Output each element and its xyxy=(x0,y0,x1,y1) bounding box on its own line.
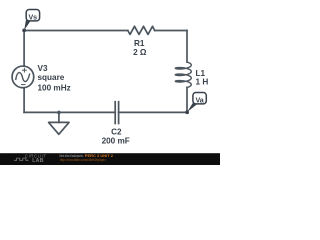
svg-text:200 mF: 200 mF xyxy=(102,136,130,145)
svg-text:Vs: Vs xyxy=(28,13,37,21)
wire resistor to top-right corner xyxy=(155,30,187,32)
wire top-left to resistor xyxy=(24,30,128,32)
ground stub xyxy=(58,112,60,122)
svg-text:LAB: LAB xyxy=(32,158,44,164)
wire left vertical lower xyxy=(23,88,25,113)
ground triangle xyxy=(49,122,69,134)
capacitor C2 left plate xyxy=(114,102,116,124)
watermark bar xyxy=(0,153,220,165)
wire bottom right segment xyxy=(119,111,187,113)
node label Vs xyxy=(22,10,39,33)
V3 minus sign xyxy=(21,84,26,86)
svg-text:V3: V3 xyxy=(38,64,48,73)
V3 plus sign xyxy=(21,68,27,85)
svg-text:http://circuitlab.com/c/8rfk2t: http://circuitlab.com/c/8rfk2tq5pdx xyxy=(60,158,106,162)
ground junction dot xyxy=(57,111,61,115)
logo waveform xyxy=(14,158,29,160)
svg-text:100 mHz: 100 mHz xyxy=(38,84,71,93)
voltage source V3 circle xyxy=(12,66,34,88)
svg-text:square: square xyxy=(38,73,65,82)
svg-text:2 Ω: 2 Ω xyxy=(133,48,147,57)
inductor L1 coil xyxy=(175,62,191,87)
wire left vertical upper xyxy=(23,31,25,67)
wire right vertical lower xyxy=(186,88,188,113)
V3 sine wave xyxy=(16,73,30,82)
wire bottom left segment xyxy=(24,111,115,113)
svg-text:1 H: 1 H xyxy=(196,77,209,86)
resistor R1 xyxy=(128,26,155,34)
capacitor C2 right plate xyxy=(118,102,120,124)
svg-text:Va: Va xyxy=(195,96,203,104)
svg-text:C2: C2 xyxy=(111,127,122,136)
wire right vertical upper xyxy=(186,31,188,63)
node label Va xyxy=(185,93,206,115)
svg-text:R1: R1 xyxy=(134,39,145,48)
